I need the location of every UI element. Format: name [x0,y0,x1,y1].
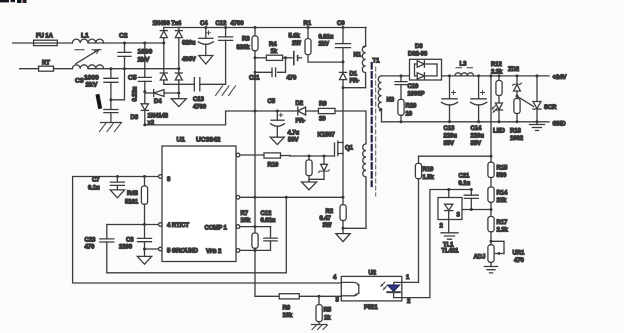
ground under C7 [110,190,124,198]
+24V sense descent [490,76,492,156]
resistor R12 2.3k [491,62,503,103]
resistor R2 0.47 3W [320,197,367,233]
svg-text:N1: N1 [354,53,362,59]
resistor R17 2.3k [488,217,509,245]
svg-text:Q1: Q1 [345,146,354,152]
svg-text:4 RT/CT: 4 RT/CT [167,223,189,229]
earth under UR1 [485,267,498,273]
RT/CT pin4 wire [107,224,159,226]
svg-text:R6: R6 [283,306,291,312]
thermistor RT [39,61,54,72]
wire [57,42,72,44]
svg-text:0.47: 0.47 [320,216,332,222]
capacitor C21 0.1u [459,174,479,210]
capacitor C2 1000 2kV [111,33,153,100]
svg-text:R19: R19 [423,167,434,173]
svg-text:35V: 35V [444,141,454,147]
svg-text:D3: D3 [131,115,139,121]
capacitor C12 0.01u (comp) [240,211,277,252]
transformer T1 primary N1 [354,28,367,88]
opto pin2 wire to TL431 [402,190,472,298]
svg-text:4: 4 [333,275,337,281]
svg-text:+24V: +24V [553,75,567,81]
partial cropped text top-left [0,0,27,3]
svg-text:T1: T1 [373,59,381,65]
MOSFET Q1 K1507 [318,133,354,198]
svg-text:1000P: 1000P [408,92,425,98]
filter inductor L3 [455,62,474,76]
electrolytic C14 220u 35V [471,74,487,147]
svg-text:C9: C9 [337,21,345,27]
svg-text:0.01u: 0.01u [261,218,276,224]
svg-text:560: 560 [497,173,507,179]
svg-text:COMP 1: COMP 1 [205,226,228,232]
svg-text:C10: C10 [408,84,419,90]
svg-text:2200: 2200 [119,245,133,251]
svg-text:C5: C5 [128,75,137,82]
svg-text:2.3k: 2.3k [491,70,503,76]
capacitor C7 0.1u [88,175,124,192]
earth under TL431 [441,233,458,239]
wire [54,68,73,70]
svg-text:FU 1A: FU 1A [36,34,54,40]
capacitor (5.6k 2W label) [289,34,302,65]
svg-text:FR-: FR- [296,119,306,125]
bridge rectifier 1N4007 x4 [153,21,183,93]
wire L line to bridge [88,42,164,44]
gate zener ZD1 [309,155,329,180]
svg-text:C11: C11 [249,76,260,82]
svg-text:ADJ: ADJ [474,255,486,261]
svg-text:2kV: 2kV [86,82,98,89]
opto LED (blue) [381,282,402,297]
output rail +24V [442,75,550,77]
svg-text:R12: R12 [491,62,502,68]
svg-text:0.01u: 0.01u [319,35,334,41]
earth under GND rail [530,122,545,131]
snubber capacitor C10 1000P [395,74,424,99]
diode D3 1N4148 [131,90,169,126]
svg-text:1.5k: 1.5k [423,175,435,181]
svg-text:10k: 10k [241,218,251,224]
svg-text:35V: 35V [471,141,481,147]
svg-text:C2: C2 [119,33,128,40]
svg-text:SCR: SCR [544,105,557,111]
resistor R3 820k [237,26,259,58]
secondary top wire [382,75,410,77]
svg-text:R2: R2 [326,209,334,215]
ground under R2 [336,234,350,242]
IC U1 UC3842 [159,137,240,262]
transformer secondary N3 [378,76,395,122]
svg-text:FR-: FR- [350,79,360,85]
capacitor C12 4700 [216,21,245,40]
svg-text:C8: C8 [126,238,134,244]
svg-text:220u: 220u [444,134,458,140]
svg-text:50V: 50V [288,138,298,144]
chassis mark (thick bar) [98,96,100,107]
svg-text:5 GROUND: 5 GROUND [167,249,199,255]
resistor R5 1k [316,296,332,324]
chassis ground (slashes) mid [216,86,236,96]
svg-text:L1: L1 [81,33,89,40]
ground under R5 [312,325,328,330]
svg-text:R4: R4 [269,42,277,48]
capacitor C23 470 [85,196,288,273]
TL431 ref wire [462,209,491,211]
svg-text:C12: C12 [261,211,272,217]
snubber resistor R20 10 [398,99,417,123]
optocoupler U2 P521 [333,271,411,312]
svg-text:2: 2 [440,224,444,230]
svg-text:P521: P521 [364,305,378,311]
potentiometer UR1 470 [474,241,525,266]
svg-text:R10: R10 [268,163,279,169]
capacitor C8 2200 [119,225,159,257]
svg-text:C3: C3 [75,78,84,85]
svg-text:470: 470 [85,245,95,251]
COMP pin1 wire [240,226,271,228]
resistor R15 560 [488,156,508,187]
svg-text:4700: 4700 [193,105,207,111]
svg-text:220u: 220u [471,134,485,140]
opto pin1 wire [402,281,419,283]
svg-text:R18: R18 [510,129,521,135]
resistor R6 10k [279,294,341,319]
svg-text:R7: R7 [241,211,249,217]
svg-text:C5: C5 [268,99,276,105]
fuse FU 1A [34,34,58,46]
gate drive wire [290,155,335,157]
transformer core [372,63,376,196]
svg-text:C13: C13 [444,126,455,132]
svg-text:C14: C14 [471,126,482,132]
svg-text:2W: 2W [292,41,301,47]
svg-text:R3: R3 [242,37,250,43]
wire AC line L input [13,42,34,44]
ground under D4 node [171,92,186,107]
svg-text:ZD2: ZD2 [508,67,520,73]
main HV bus wire [164,27,366,29]
svg-text:1002: 1002 [510,136,524,142]
VFB descent wire to divider [255,295,279,297]
svg-text:1k: 1k [271,49,278,55]
resistor R19 1.5k [415,156,434,282]
svg-text:0.22u: 0.22u [133,86,139,101]
svg-text:1: 1 [406,275,410,281]
svg-text:N3: N3 [387,98,395,104]
wire N line to bridge [88,68,179,70]
svg-text:39: 39 [319,117,326,123]
resistor R7 10k [241,197,259,296]
diode D4 1N4148 [145,90,179,105]
electrolytic C4 620u 400V [182,21,213,64]
svg-text:0.1u: 0.1u [459,181,471,187]
svg-text:C4: C4 [200,21,208,27]
svg-text:620u: 620u [182,41,196,47]
svg-text:470: 470 [287,76,297,82]
svg-text:400V: 400V [182,57,196,63]
GND rail [382,121,550,123]
capacitor below C3 [104,110,118,123]
svg-text:4.7u: 4.7u [288,131,300,137]
LED indicator [492,103,505,135]
svg-text:2: 2 [407,299,411,305]
svg-text:1000: 1000 [84,75,99,82]
svg-text:C23: C23 [85,238,96,244]
svg-text:D2: D2 [296,101,304,107]
VCC wire from D3/D4 rectifier [145,111,298,125]
rectifier D6 D92-06 [408,44,442,80]
svg-text:1N400 7x4: 1N400 7x4 [153,21,182,27]
resistor R10 [240,153,290,169]
gate resistor to ground [306,155,312,183]
svg-text:5101: 5101 [125,200,139,206]
resistor R18 1002 [510,99,524,143]
svg-text:GND: GND [553,122,567,128]
svg-text:5.6k: 5.6k [289,34,301,40]
transformer aux winding N2 [363,144,366,228]
sense wire pin3 to Q1 source [240,196,343,198]
resistor R14 22k [488,187,508,217]
svg-text:2kV: 2kV [138,57,150,64]
svg-text:LED: LED [493,129,505,135]
wire to C12 bottom [225,40,227,84]
wire bridge negative row [164,83,194,85]
svg-text:4700: 4700 [231,21,245,27]
diode D1 FR- (clamp) [340,72,366,143]
svg-text:UC3842: UC3842 [196,137,221,144]
svg-text:R14: R14 [497,191,508,197]
svg-text:3W: 3W [323,223,332,229]
svg-text:R9: R9 [319,102,327,108]
capacitor C9 0.01u 2kV [319,21,351,72]
svg-text:U2: U2 [369,271,377,277]
capacitor C11 470 [249,58,297,199]
X-capacitor C5 0.22u [128,42,151,102]
svg-text:1N4148: 1N4148 [148,114,169,120]
resistor R9 39 [318,102,366,144]
svg-text:RT: RT [42,61,50,67]
shunt regulator TL1 TL431 [438,188,462,255]
svg-text:TL431: TL431 [442,249,460,255]
svg-text:D92-06: D92-06 [408,52,428,58]
svg-text:0.1u: 0.1u [88,186,100,192]
svg-text:3: 3 [336,297,340,303]
chassis ground (slashes) [100,123,122,132]
VREF pin8 rail [73,177,342,284]
svg-text:1k: 1k [324,316,331,322]
ground under gate network [302,179,317,190]
svg-text:D4: D4 [154,99,162,105]
common-mode choke L1 [72,33,103,69]
svg-text:D1: D1 [350,72,358,78]
resistor R1 (snubber) [304,21,344,62]
svg-text:D6: D6 [415,44,423,50]
electrolytic C13 220u 35V [441,74,457,147]
svg-text:C21: C21 [459,174,470,180]
svg-text:R20: R20 [406,104,417,110]
svg-text:U1: U1 [177,137,186,144]
svg-text:C7: C7 [92,178,100,184]
svg-text:R5: R5 [324,308,332,314]
svg-text:22k: 22k [497,198,507,204]
diode D2 FR- (aux rectifier) [296,101,319,125]
resistor R48 5101 [125,175,148,225]
ground under C8 [137,256,151,264]
resistor R4 1k [254,42,293,60]
svg-text:10k: 10k [283,313,293,319]
svg-text:VFB 2: VFB 2 [206,249,222,255]
wire AC line N input [20,68,39,70]
capacitor C13 4700 (line filter) [193,78,226,111]
opto phototransistor [341,282,359,295]
svg-text:470: 470 [514,258,524,264]
svg-text:K1507: K1507 [318,133,336,139]
svg-text:R15: R15 [497,166,508,172]
svg-text:2kV: 2kV [319,42,329,48]
zener ZD2 [508,67,522,99]
svg-text:L3: L3 [460,62,468,68]
svg-text:2.3k: 2.3k [497,228,509,234]
svg-text:10: 10 [406,112,413,118]
svg-text:UR1: UR1 [513,251,525,257]
svg-text:x2: x2 [148,121,155,127]
electrolytic C5 4.7u 50V (VCC) [268,99,300,145]
SCR crowbar [517,74,557,123]
svg-text:820k: 820k [237,45,251,51]
svg-text:C13: C13 [193,97,204,103]
svg-text:R17: R17 [497,220,508,226]
svg-text:R48: R48 [127,191,138,197]
capacitor C3 1000 2kV [75,67,118,109]
